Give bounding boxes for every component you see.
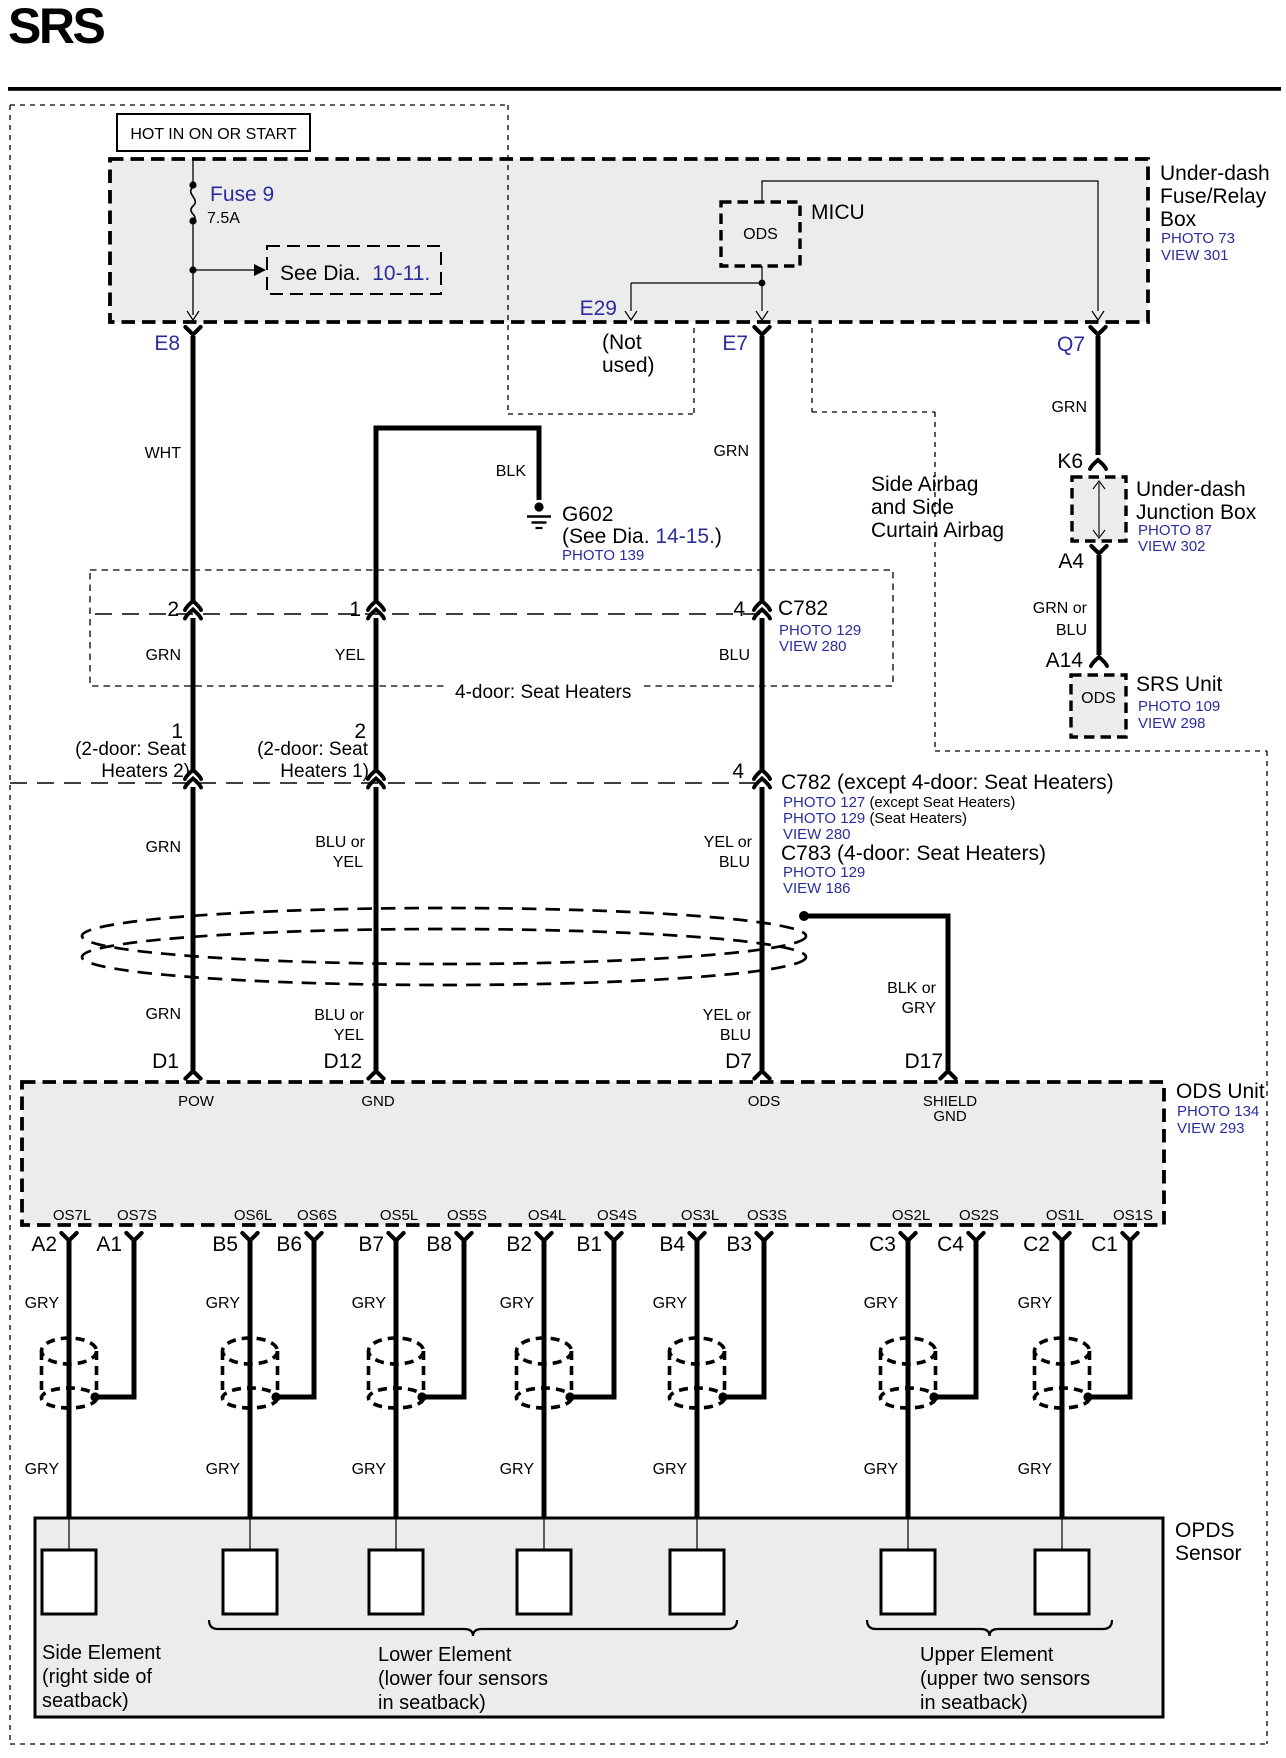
wire A2 GRY upper <box>67 1241 72 1518</box>
svg-text:C782 (except 4-door: Seat Heat: C782 (except 4-door: Seat Heaters) <box>781 771 1114 794</box>
svg-text:seatback): seatback) <box>42 1690 129 1712</box>
svg-text:GRY: GRY <box>500 1461 535 1478</box>
svg-text:2: 2 <box>167 598 179 621</box>
svg-text:OS1S: OS1S <box>1113 1207 1153 1224</box>
svg-text:PHOTO 129: PHOTO 129 <box>783 864 865 881</box>
svg-text:B7: B7 <box>358 1233 384 1256</box>
svg-text:GRY: GRY <box>352 1295 387 1312</box>
wire MICU top to Q7 <box>762 181 1098 311</box>
svg-text:ODS: ODS <box>1081 690 1116 707</box>
svg-text:OS7S: OS7S <box>117 1207 157 1224</box>
svg-text:Junction Box: Junction Box <box>1136 501 1257 524</box>
svg-text:Sensor: Sensor <box>1175 1542 1242 1565</box>
connector C4 <box>968 1233 983 1241</box>
svg-text:OS3L: OS3L <box>681 1207 719 1224</box>
svg-text:B8: B8 <box>426 1233 452 1256</box>
ferrite cylinder OS6L <box>223 1338 278 1364</box>
svg-text:E29: E29 <box>580 297 617 320</box>
svg-text:OPDS: OPDS <box>1175 1519 1235 1542</box>
svg-text:GRY: GRY <box>206 1295 241 1312</box>
sensor element lead B2 <box>543 1518 545 1550</box>
svg-text:C1: C1 <box>1091 1233 1118 1256</box>
svg-text:B4: B4 <box>659 1233 685 1256</box>
svg-text:OS5L: OS5L <box>380 1207 418 1224</box>
connector C782 pin 4 <box>754 601 770 610</box>
svg-text:ODS Unit: ODS Unit <box>1176 1080 1265 1103</box>
svg-text:SRS Unit: SRS Unit <box>1136 673 1223 696</box>
svg-text:Heaters 1): Heaters 1) <box>280 761 369 782</box>
svg-text:D7: D7 <box>725 1050 752 1073</box>
fuse F9 node bottom <box>189 217 196 224</box>
sensor element lead C3 <box>907 1518 909 1550</box>
svg-text:Side Airbag: Side Airbag <box>871 473 978 496</box>
wire B6 GRY <box>278 1241 314 1397</box>
zone line vertical x694 <box>693 328 695 414</box>
fuse F9 lead bottom <box>192 223 194 315</box>
svg-text:Box: Box <box>1160 208 1197 231</box>
connector row2 pin 1 <box>185 770 201 779</box>
svg-text:7.5A: 7.5A <box>207 210 240 227</box>
ferrite cylinder OS2L <box>881 1338 936 1364</box>
svg-text:4-door: Seat Heaters: 4-door: Seat Heaters <box>455 682 631 703</box>
svg-text:VIEW 298: VIEW 298 <box>1138 715 1206 732</box>
wire YEL or BLU lower <box>760 787 765 1070</box>
svg-text:(2-door: Seat: (2-door: Seat <box>75 739 187 760</box>
svg-text:(2-door: Seat: (2-door: Seat <box>257 739 369 760</box>
svg-text:B6: B6 <box>276 1233 302 1256</box>
connector C2 <box>1054 1233 1069 1241</box>
svg-text:Heaters 2): Heaters 2) <box>101 761 190 782</box>
svg-text:(lower four sensors: (lower four sensors <box>378 1668 548 1690</box>
sensor element lead A2 <box>68 1518 70 1550</box>
svg-text:C2: C2 <box>1023 1233 1050 1256</box>
sensor element lead B7 <box>395 1518 397 1550</box>
svg-text:BLK or: BLK or <box>887 980 937 997</box>
svg-text:Under-dash: Under-dash <box>1160 162 1270 185</box>
sensor element lead B4 <box>696 1518 698 1550</box>
svg-text:YEL or: YEL or <box>704 834 753 851</box>
svg-text:ODS: ODS <box>743 226 778 243</box>
connector D1 <box>185 1071 200 1079</box>
connector B8 <box>456 1233 471 1241</box>
connector B2 <box>536 1233 551 1241</box>
svg-text:GRN: GRN <box>713 443 749 460</box>
svg-text:A1: A1 <box>96 1233 122 1256</box>
svg-text:D17: D17 <box>904 1050 943 1073</box>
svg-text:OS2S: OS2S <box>959 1207 999 1224</box>
svg-text:C782: C782 <box>778 597 828 620</box>
svg-text:Fuse/Relay: Fuse/Relay <box>1160 185 1267 208</box>
svg-text:GRY: GRY <box>902 1000 937 1017</box>
sensor element square B2 <box>517 1550 571 1614</box>
svg-text:GRY: GRY <box>1018 1461 1053 1478</box>
svg-text:VIEW 186: VIEW 186 <box>783 880 851 897</box>
label box HOT IN ON OR START <box>117 114 310 151</box>
wire B8 GRY <box>424 1241 464 1397</box>
connector B4 <box>689 1233 704 1241</box>
MICU ODS box <box>721 202 800 266</box>
wire A1 GRY <box>97 1241 134 1397</box>
svg-text:Under-dash: Under-dash <box>1136 478 1246 501</box>
svg-text:E8: E8 <box>154 332 180 355</box>
sensor element square B5 <box>223 1550 277 1614</box>
svg-text:E7: E7 <box>722 332 748 355</box>
connector D17 <box>940 1071 955 1079</box>
svg-text:PHOTO 109: PHOTO 109 <box>1138 698 1220 715</box>
svg-text:See Dia. 10-11.: See Dia. 10-11. <box>280 262 430 285</box>
svg-text:A2: A2 <box>31 1233 57 1256</box>
zone line vertical x508 <box>507 105 509 414</box>
zone line horizontal y751 <box>935 750 1267 752</box>
svg-text:BLU: BLU <box>1056 622 1087 639</box>
connector B3 <box>756 1233 771 1241</box>
page border bottom <box>10 1743 1267 1745</box>
svg-text:OS1L: OS1L <box>1046 1207 1084 1224</box>
wire B7 GRY upper <box>394 1241 399 1518</box>
junction dot fuse branch <box>189 266 196 273</box>
connector line row1 <box>95 613 766 615</box>
svg-text:VIEW 280: VIEW 280 <box>783 826 851 843</box>
wire C1 GRY <box>1090 1241 1130 1397</box>
svg-text:BLK: BLK <box>496 463 527 480</box>
svg-text:OS4L: OS4L <box>528 1207 566 1224</box>
connector B5 <box>242 1233 257 1241</box>
cell 4-door seat heaters <box>90 570 893 686</box>
svg-text:OS6S: OS6S <box>297 1207 337 1224</box>
svg-text:OS2L: OS2L <box>892 1207 930 1224</box>
under-dash fuse/relay box <box>110 159 1148 322</box>
ferrite cylinder OS5L <box>369 1338 424 1364</box>
connector A1 <box>126 1233 141 1241</box>
fuse F9 element <box>191 187 196 220</box>
svg-text:Q7: Q7 <box>1057 333 1085 356</box>
svg-text:YEL: YEL <box>333 854 363 871</box>
svg-text:YEL or: YEL or <box>703 1007 752 1024</box>
svg-text:YEL: YEL <box>334 1027 364 1044</box>
svg-text:B2: B2 <box>506 1233 532 1256</box>
svg-text:A14: A14 <box>1046 649 1084 672</box>
title rule <box>8 87 1281 91</box>
wire MICU bottom branch <box>761 266 763 311</box>
svg-text:GRY: GRY <box>206 1461 241 1478</box>
svg-text:OS6L: OS6L <box>234 1207 272 1224</box>
wire GRN mid <box>191 618 196 772</box>
zone line horizontal y414 <box>508 413 694 415</box>
wire A4-A14 GRN or BLU <box>1097 555 1102 655</box>
shield tap node <box>799 911 809 921</box>
svg-text:PHOTO 127 (except Seat Heaters: PHOTO 127 (except Seat Heaters) <box>783 794 1015 811</box>
svg-text:GRY: GRY <box>25 1295 60 1312</box>
svg-text:B3: B3 <box>726 1233 752 1256</box>
ferrite cylinder OS3L <box>670 1338 725 1364</box>
svg-text:PHOTO 129: PHOTO 129 <box>779 622 861 639</box>
connector A14 <box>1091 657 1107 666</box>
sensor element square C3 <box>881 1550 935 1614</box>
svg-text:(Not: (Not <box>602 331 642 354</box>
wire YEL top elbow + BLK branch <box>376 428 539 602</box>
fuse F9 lead top <box>192 160 194 184</box>
page border right <box>1266 751 1268 1744</box>
svg-text:VIEW 302: VIEW 302 <box>1138 538 1206 555</box>
sensor element square C2 <box>1035 1550 1089 1614</box>
svg-text:VIEW 301: VIEW 301 <box>1161 247 1229 264</box>
svg-text:and Side: and Side <box>871 496 954 519</box>
svg-text:4: 4 <box>733 598 745 621</box>
svg-text:GRN or: GRN or <box>1033 600 1088 617</box>
wire C4 GRY <box>936 1241 976 1397</box>
svg-text:Fuse 9: Fuse 9 <box>210 183 274 206</box>
see dia 10-11 box <box>267 246 441 294</box>
connector K6 <box>1090 460 1106 469</box>
svg-text:D12: D12 <box>323 1050 362 1073</box>
svg-text:B1: B1 <box>576 1233 602 1256</box>
connector line row2 <box>10 782 766 784</box>
arrow into E8 <box>187 311 199 320</box>
sensor element square A2 <box>42 1550 96 1614</box>
svg-text:ODS: ODS <box>748 1093 781 1110</box>
ground G602 <box>534 502 543 511</box>
svg-text:C3: C3 <box>869 1233 896 1256</box>
svg-text:(upper two sensors: (upper two sensors <box>920 1668 1090 1690</box>
brace upper element <box>867 1620 1112 1636</box>
connector B1 <box>606 1233 621 1241</box>
wire B2 GRY upper <box>542 1241 547 1518</box>
OPDS sensor box <box>35 1518 1163 1717</box>
svg-text:4: 4 <box>732 760 744 783</box>
svg-text:A4: A4 <box>1058 550 1084 573</box>
brace lower element <box>209 1620 737 1636</box>
svg-text:GRY: GRY <box>653 1461 688 1478</box>
wire C3 GRY upper <box>906 1241 911 1518</box>
connector C782 pin 1 <box>368 601 384 610</box>
svg-text:GRN: GRN <box>145 647 181 664</box>
svg-text:Side Element: Side Element <box>42 1642 161 1664</box>
connector row2 pin 2 <box>368 770 384 779</box>
connector E7 <box>754 327 769 335</box>
wire B4 GRY upper <box>695 1241 700 1518</box>
svg-text:GND: GND <box>361 1093 395 1110</box>
svg-text:C4: C4 <box>937 1233 964 1256</box>
svg-text:GRN: GRN <box>145 1006 181 1023</box>
connector B7 <box>388 1233 403 1241</box>
sensor element lead B5 <box>249 1518 251 1550</box>
svg-text:Lower Element: Lower Element <box>378 1644 512 1666</box>
svg-text:SRS: SRS <box>8 0 104 54</box>
svg-text:BLU: BLU <box>719 647 750 664</box>
svg-text:PHOTO 134: PHOTO 134 <box>1177 1103 1259 1120</box>
ODS unit box <box>22 1082 1164 1225</box>
wire BLU mid <box>760 618 765 772</box>
svg-text:1: 1 <box>349 598 361 621</box>
svg-text:POW: POW <box>178 1093 215 1110</box>
wire Q7 GRN segment <box>1096 336 1101 455</box>
under-dash junction box <box>1072 477 1126 541</box>
svg-text:GRN: GRN <box>145 839 181 856</box>
svg-text:(See Dia. 14-15.): (See Dia. 14-15.) <box>562 525 722 548</box>
svg-text:GRY: GRY <box>500 1295 535 1312</box>
svg-text:in seatback): in seatback) <box>378 1692 486 1714</box>
wire E7 GRN segment <box>760 336 765 602</box>
svg-text:BLU or: BLU or <box>315 834 365 851</box>
svg-text:BLU: BLU <box>719 854 750 871</box>
svg-text:G602: G602 <box>562 503 613 526</box>
sensor element square B7 <box>369 1550 423 1614</box>
svg-text:OS7L: OS7L <box>53 1207 91 1224</box>
wire B5 GRY upper <box>248 1241 253 1518</box>
sensor element square B4 <box>670 1550 724 1614</box>
wire E8 WHT segment <box>191 336 196 602</box>
connector Q7 <box>1090 327 1105 335</box>
svg-text:Curtain Airbag: Curtain Airbag <box>871 519 1004 542</box>
svg-text:GRY: GRY <box>864 1461 899 1478</box>
svg-text:OS3S: OS3S <box>747 1207 787 1224</box>
svg-text:GRY: GRY <box>352 1461 387 1478</box>
ferrite cylinder OS1L <box>1035 1338 1090 1364</box>
svg-text:(right side of: (right side of <box>42 1666 152 1688</box>
wire YEL mid <box>374 618 379 772</box>
connector C782 pin 2 <box>185 601 201 610</box>
connector A2 <box>61 1233 76 1241</box>
wire shield to D17 <box>804 916 948 1070</box>
SRS unit box <box>1071 675 1126 737</box>
svg-text:VIEW 280: VIEW 280 <box>779 638 847 655</box>
svg-text:GRY: GRY <box>653 1295 688 1312</box>
svg-text:PHOTO 129 (Seat Heaters): PHOTO 129 (Seat Heaters) <box>783 810 967 827</box>
zone line vertical x935 <box>934 412 936 751</box>
svg-text:used): used) <box>602 354 655 377</box>
cable shield <box>82 908 806 964</box>
svg-text:PHOTO 139: PHOTO 139 <box>562 547 644 564</box>
branch wire to See Dia <box>193 269 254 271</box>
svg-text:VIEW 293: VIEW 293 <box>1177 1120 1245 1137</box>
svg-text:HOT IN ON OR START: HOT IN ON OR START <box>130 126 296 143</box>
svg-text:BLU: BLU <box>720 1027 751 1044</box>
connector D12 <box>368 1071 383 1079</box>
zone line vertical x812 <box>811 328 813 412</box>
sensor element lead C2 <box>1061 1518 1063 1550</box>
wire GRN lower <box>191 787 196 1070</box>
svg-text:in seatback): in seatback) <box>920 1692 1028 1714</box>
fuse F9 node top <box>189 181 196 188</box>
page border left <box>9 105 11 1744</box>
wire B1 GRY <box>572 1241 614 1397</box>
connector E8 <box>185 327 200 335</box>
svg-text:C783 (4-door: Seat Heaters): C783 (4-door: Seat Heaters) <box>781 842 1046 865</box>
ferrite cylinder OS7L <box>42 1338 97 1364</box>
page border top <box>10 104 508 106</box>
svg-text:Upper Element: Upper Element <box>920 1644 1054 1666</box>
svg-text:WHT: WHT <box>145 445 182 462</box>
svg-text:MICU: MICU <box>811 201 865 224</box>
svg-text:PHOTO 87: PHOTO 87 <box>1138 522 1212 539</box>
svg-text:GRY: GRY <box>25 1461 60 1478</box>
svg-text:GND: GND <box>933 1108 967 1125</box>
connector A4 <box>1091 546 1106 554</box>
svg-text:OS4S: OS4S <box>597 1207 637 1224</box>
connector C1 <box>1122 1233 1137 1241</box>
wire BLU or YEL lower <box>374 787 379 1070</box>
connector C3 <box>900 1233 915 1241</box>
connector B6 <box>306 1233 321 1241</box>
connector row2 pin 4 <box>754 770 770 779</box>
svg-text:GRY: GRY <box>1018 1295 1053 1312</box>
wire B3 GRY <box>725 1241 764 1397</box>
svg-text:B5: B5 <box>212 1233 238 1256</box>
svg-text:OS5S: OS5S <box>447 1207 487 1224</box>
svg-text:D1: D1 <box>152 1050 179 1073</box>
svg-text:K6: K6 <box>1057 450 1083 473</box>
svg-text:GRN: GRN <box>1051 399 1087 416</box>
ferrite cylinder OS4L <box>517 1338 572 1364</box>
svg-text:BLU or: BLU or <box>314 1007 364 1024</box>
wire C2 GRY upper <box>1060 1241 1065 1518</box>
zone line horizontal y412 <box>812 411 935 413</box>
svg-text:GRY: GRY <box>864 1295 899 1312</box>
svg-text:YEL: YEL <box>335 647 365 664</box>
connector D7 <box>754 1071 769 1079</box>
svg-text:PHOTO 73: PHOTO 73 <box>1161 230 1235 247</box>
